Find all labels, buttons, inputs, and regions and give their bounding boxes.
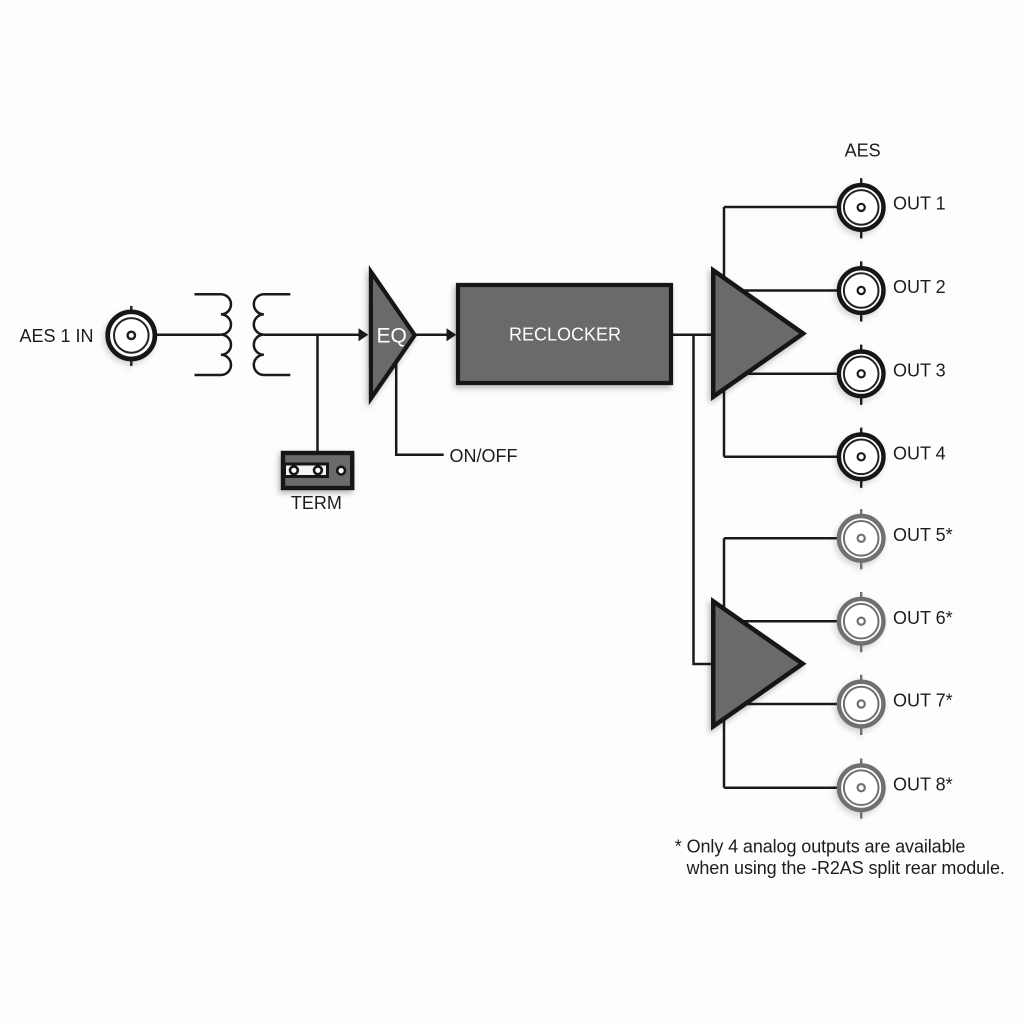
svg-text:OUT 6*: OUT 6* bbox=[893, 608, 953, 628]
svg-text:OUT 1: OUT 1 bbox=[893, 194, 946, 214]
svg-text:* Only 4 analog outputs are av: * Only 4 analog outputs are available bbox=[675, 837, 966, 857]
svg-text:OUT 8*: OUT 8* bbox=[893, 774, 953, 794]
svg-text:OUT 7*: OUT 7* bbox=[893, 691, 953, 711]
svg-text:OUT 4: OUT 4 bbox=[893, 444, 946, 464]
svg-text:TERM: TERM bbox=[291, 493, 342, 513]
svg-text:AES 1 IN: AES 1 IN bbox=[20, 326, 94, 346]
svg-text:when using the -R2AS split rea: when using the -R2AS split rear module. bbox=[686, 858, 1005, 878]
svg-text:AES: AES bbox=[845, 141, 881, 161]
svg-text:OUT 3: OUT 3 bbox=[893, 361, 946, 381]
svg-text:RECLOCKER: RECLOCKER bbox=[509, 325, 621, 345]
svg-text:OUT 5*: OUT 5* bbox=[893, 525, 953, 545]
svg-text:ON/OFF: ON/OFF bbox=[450, 446, 518, 466]
svg-text:EQ: EQ bbox=[377, 325, 407, 348]
svg-text:OUT 2: OUT 2 bbox=[893, 277, 946, 297]
